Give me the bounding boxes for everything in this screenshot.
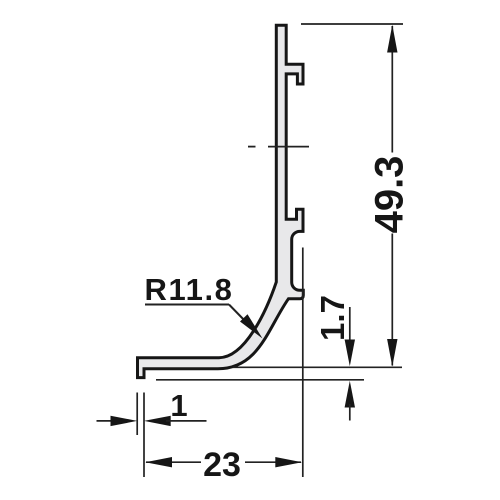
radius leader arrowhead pointing at inner corner radius bbox=[240, 314, 263, 338]
reference line at end-tab underside bbox=[156, 379, 364, 381]
dimension 23 arrowhead pointing right bbox=[275, 457, 302, 467]
centerline main segment crossing wall bbox=[268, 146, 309, 148]
dimension 23 arrowhead pointing left bbox=[145, 457, 172, 467]
svg-text:23: 23 bbox=[203, 446, 241, 484]
dimension 1 left arrow tail bbox=[97, 420, 116, 422]
extension line at profile right face (right end of dimension 23) bbox=[302, 248, 304, 478]
dimension 1.7 arrowhead up bbox=[345, 381, 355, 408]
centerline short dash left of wall bbox=[248, 146, 256, 148]
shared extension line (tab right face, also left end of dimension 23) bbox=[143, 393, 145, 478]
radius leader horizontal segment bbox=[145, 304, 229, 306]
dimension 49.3 line lower segment bbox=[391, 234, 393, 366]
svg-text:49.3: 49.3 bbox=[368, 156, 412, 234]
svg-text:1: 1 bbox=[170, 388, 187, 423]
dimension 49.3 arrowhead down bbox=[387, 339, 397, 367]
svg-text:1.7: 1.7 bbox=[314, 295, 351, 341]
dimension 23 line right segment bbox=[245, 461, 301, 463]
extension line at profile top edge bbox=[301, 23, 403, 25]
dimension 1 arrowhead pointing left bbox=[144, 416, 171, 426]
dimension 23 line left segment bbox=[146, 461, 201, 463]
radius leader diagonal segment bbox=[229, 305, 248, 325]
reference line at profile underside bbox=[233, 366, 402, 368]
svg-text:R11.8: R11.8 bbox=[145, 272, 234, 307]
dimension 49.3 line upper segment bbox=[391, 26, 393, 153]
dimension 49.3 arrowhead up bbox=[387, 25, 397, 53]
dimension 1.7 upper arrow shaft bbox=[349, 307, 351, 345]
dimension 1 arrowhead pointing right bbox=[111, 416, 138, 426]
dimension 1 right arrow tail bbox=[166, 420, 207, 422]
dimension 1 extension line left (tab left face) bbox=[136, 393, 138, 436]
dimension 1.7 lower arrow shaft bbox=[349, 404, 351, 421]
dimension 1.7 arrowhead down bbox=[345, 340, 355, 367]
profile body (L-shaped aluminium extrusion cross-section with clip hooks, groove and corner radius) bbox=[138, 25, 304, 377]
